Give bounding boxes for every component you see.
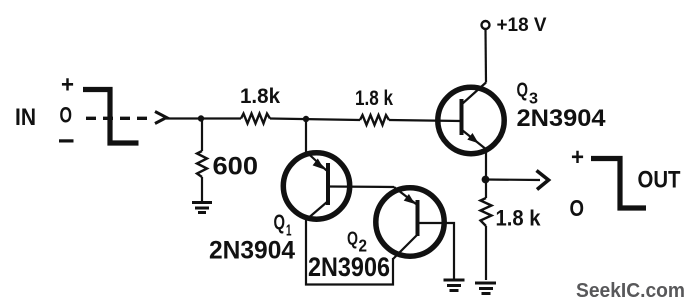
svg-text:Q: Q — [347, 229, 358, 249]
svg-text:1.8 k: 1.8 k — [355, 87, 393, 110]
svg-text:+: + — [61, 72, 74, 99]
svg-text:Q: Q — [274, 211, 286, 234]
svg-text:IN: IN — [15, 105, 36, 131]
svg-text:600: 600 — [213, 153, 259, 181]
svg-text:O: O — [570, 195, 585, 221]
svg-text:2N3904: 2N3904 — [209, 238, 295, 265]
svg-text:+18 V: +18 V — [497, 14, 547, 36]
svg-text:Q: Q — [517, 80, 529, 102]
svg-text:1.8k: 1.8k — [240, 85, 280, 108]
svg-text:OUT: OUT — [638, 168, 681, 194]
svg-text:2N3906: 2N3906 — [308, 252, 390, 282]
svg-text:+: + — [571, 144, 584, 171]
svg-text:2N3904: 2N3904 — [517, 106, 606, 132]
svg-text:3: 3 — [529, 91, 538, 108]
svg-text:1.8 k: 1.8 k — [496, 206, 542, 231]
svg-text:SeekIC.com: SeekIC.com — [576, 280, 685, 302]
svg-text:O: O — [60, 103, 73, 128]
